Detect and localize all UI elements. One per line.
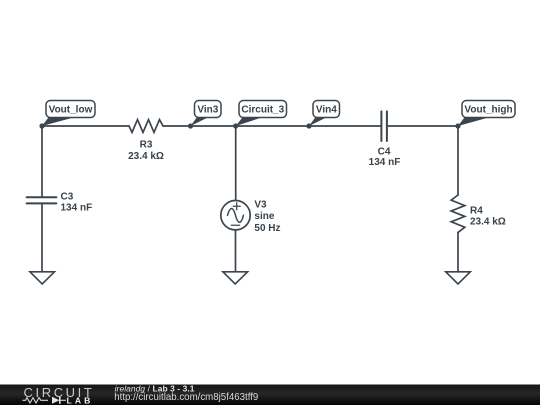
svg-text:http://circuitlab.com/cm8j5f46: http://circuitlab.com/cm8j5f463tff9 xyxy=(114,392,258,403)
node flag Circuit_3 xyxy=(233,101,286,129)
wire: R4 to right ground xyxy=(457,232,459,271)
svg-text:C4: C4 xyxy=(378,147,391,158)
wire: main horizontal Vout_low to R3 xyxy=(42,125,129,127)
label R4 value xyxy=(470,205,506,227)
svg-text:Vout_high: Vout_high xyxy=(464,105,512,116)
ground middle xyxy=(223,272,248,284)
resistor R4 xyxy=(451,195,465,232)
node flag Vout_low xyxy=(39,101,95,129)
svg-text:50 Hz: 50 Hz xyxy=(254,223,280,234)
svg-text:23.4 kΩ: 23.4 kΩ xyxy=(470,216,506,227)
wire: R3 to C4 xyxy=(163,125,381,127)
label C3 value xyxy=(61,192,93,214)
footer url text xyxy=(114,392,258,403)
svg-text:C3: C3 xyxy=(61,192,74,203)
svg-text:sine: sine xyxy=(254,211,274,222)
svg-text:V3: V3 xyxy=(254,200,267,211)
footer logo CIRCUIT xyxy=(24,385,95,400)
wire: Vout_high down to R4 xyxy=(457,126,459,195)
resistor R3 xyxy=(129,120,163,133)
label V3 value xyxy=(254,200,280,234)
svg-text:23.4 kΩ: 23.4 kΩ xyxy=(128,151,164,162)
footer logo resistor glyph xyxy=(23,398,49,403)
svg-text:R4: R4 xyxy=(470,205,483,216)
wire: V3 to middle ground xyxy=(235,230,237,272)
footer logo diode glyph xyxy=(52,397,66,404)
voltage source V3 xyxy=(221,201,250,230)
footer title text xyxy=(115,384,195,394)
node flag Vin3 xyxy=(188,101,221,129)
wire: C3 to left ground xyxy=(41,204,43,272)
wire: Vout_low down to C3 xyxy=(41,126,43,197)
svg-text:LAB: LAB xyxy=(67,396,94,405)
svg-text:R3: R3 xyxy=(140,140,153,151)
capacitor C3 xyxy=(27,197,57,203)
label C4 value xyxy=(369,147,401,169)
ground left xyxy=(30,272,55,284)
svg-text:134 nF: 134 nF xyxy=(61,202,93,213)
svg-text:134 nF: 134 nF xyxy=(369,157,401,168)
svg-text:Vin3: Vin3 xyxy=(197,105,218,116)
footer logo LAB xyxy=(67,396,94,405)
footer bar xyxy=(0,385,540,405)
wire: C4 to Vout_high xyxy=(388,125,458,127)
wire: Circuit_3 down to V3 xyxy=(235,126,237,201)
svg-text:Vin4: Vin4 xyxy=(316,105,337,116)
svg-text:Circuit_3: Circuit_3 xyxy=(241,105,284,116)
ground right xyxy=(446,272,471,284)
node flag Vout_high xyxy=(455,101,515,129)
svg-text:Vout_low: Vout_low xyxy=(49,105,93,116)
capacitor C4 xyxy=(381,111,387,141)
node flag Vin4 xyxy=(306,101,339,129)
label R3 value xyxy=(128,140,164,162)
